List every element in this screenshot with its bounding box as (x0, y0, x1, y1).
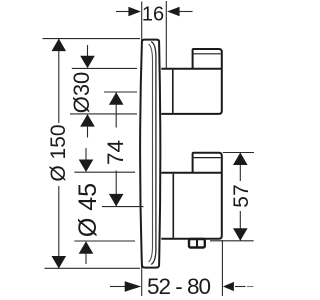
volume stop tab (189, 239, 205, 248)
dim 16 line left tail (116, 11, 129, 13)
dim D150 line lower (58, 186, 60, 268)
dim D30 upper arrow (80, 56, 95, 68)
svg-text:Ø 45: Ø 45 (74, 183, 102, 237)
plate dome contour arc 2 (151, 42, 156, 265)
dim D45 upper arrow tail (85, 148, 87, 160)
dim 57 line upper (239, 153, 241, 182)
dim 57 top extension line (223, 152, 254, 154)
top handle cap edge (172, 70, 174, 113)
dim 52-80 right arrow (223, 282, 234, 291)
dim 74 line upper (115, 92, 117, 127)
dim D150 top arrow (52, 39, 67, 52)
dim 52-80 left tail (110, 286, 125, 288)
dim 52-80 right tail grey (247, 286, 254, 288)
svg-text:74: 74 (103, 140, 128, 165)
dim 57 top arrow (233, 153, 248, 166)
dim 57 bottom extension line right (210, 240, 254, 242)
dim D150 line upper (58, 39, 60, 123)
dim D150 bottom arrow (52, 256, 67, 269)
dim D30 lower arrow tail (87, 126, 89, 138)
dim D45 upper arrow (79, 160, 94, 173)
dim D45 top extension line (74, 171, 135, 173)
dim 16 right tail (179, 11, 193, 13)
dim D45 lower arrow tail (85, 253, 87, 264)
top handle centerline (104, 91, 137, 93)
dim D150 top extension line (43, 38, 141, 40)
escutcheon plate outline (140, 40, 160, 268)
plate dome contour arc 1 (149, 44, 153, 262)
tab divider (196, 239, 198, 248)
dim D30 top extension line (72, 67, 137, 69)
dim D30 upper arrow tail (87, 45, 89, 57)
dim 74 line lower (115, 171, 117, 207)
dim 16 left arrow (128, 7, 141, 17)
svg-text:Ø 150: Ø 150 (47, 124, 70, 181)
dim 57 line lower (239, 211, 241, 241)
svg-text:Ø30: Ø30 (69, 72, 94, 114)
extension line right of 16 dim (165, 1, 167, 69)
svg-text:16: 16 (142, 4, 164, 26)
dim 74 bottom arrow (109, 194, 124, 207)
dim 52-80 extension line right (221, 240, 223, 296)
dim D45 bottom extension line (74, 240, 135, 242)
dim D30 bottom extension line (70, 113, 137, 115)
bottom handle cap edge (172, 174, 174, 238)
dim D30 lower arrow (80, 114, 95, 127)
svg-text:57: 57 (230, 184, 253, 207)
dim 57 bottom arrow (233, 228, 248, 241)
wall extension line left (16 / 52-80 dims) (141, 2, 143, 297)
svg-text:52 - 80: 52 - 80 (147, 274, 211, 299)
dim 52-80 right tail dark (235, 286, 246, 288)
bottom handle lever seam (194, 157, 221, 159)
bottom handle body (161, 153, 222, 239)
dim 52-80 left arrow (125, 281, 142, 292)
dim 74 top arrow (109, 92, 124, 105)
top handle body (161, 49, 222, 114)
bottom handle centerline (102, 206, 144, 208)
dim D45 lower arrow (79, 241, 94, 254)
dim D150 bottom extension line (45, 267, 141, 269)
dim 16 right arrow (167, 7, 180, 17)
top handle lever seam (194, 53, 221, 55)
